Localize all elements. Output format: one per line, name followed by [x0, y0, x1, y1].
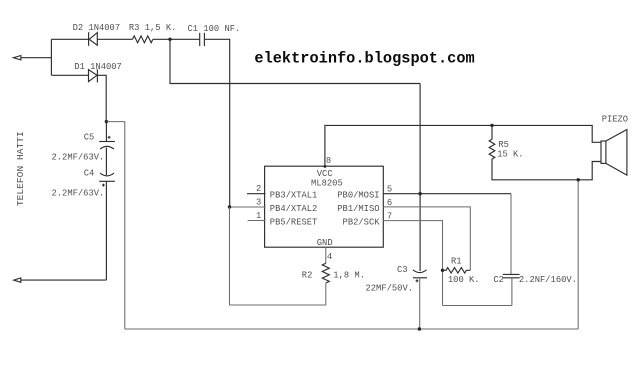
svg-text:elektroinfo.blogspot.com: elektroinfo.blogspot.com	[254, 50, 474, 68]
capacitor C1	[200, 33, 205, 46]
wire	[97, 38, 132, 40]
wire	[419, 84, 421, 272]
capacitor C5	[99, 136, 115, 149]
wire pin 6	[383, 207, 470, 270]
node pin8	[324, 165, 327, 168]
svg-text:22MF/50V.: 22MF/50V.	[366, 284, 414, 294]
wire pin 5	[383, 193, 511, 195]
svg-text:PB5/RESET: PB5/RESET	[270, 217, 318, 227]
svg-text:5: 5	[387, 185, 392, 195]
op-amp chip U1 ML8205 body	[265, 166, 384, 247]
node junction pin7/R1	[441, 269, 444, 272]
diode D1	[89, 69, 98, 82]
svg-text:3: 3	[256, 198, 261, 208]
svg-text:100 K.: 100 K.	[448, 275, 480, 285]
svg-text:2.2MF/63V.: 2.2MF/63V.	[52, 188, 105, 198]
node junction pin3/C1	[228, 205, 231, 208]
node junction pin5/C3	[418, 192, 421, 195]
wire	[51, 74, 88, 76]
svg-text:PB4/XTAL2: PB4/XTAL2	[270, 204, 318, 214]
svg-text:15 K.: 15 K.	[497, 149, 523, 159]
wire	[443, 305, 512, 307]
svg-text:PB3/XTAL1: PB3/XTAL1	[270, 191, 318, 201]
svg-text:1,8 M.: 1,8 M.	[333, 271, 365, 281]
resistor R1	[443, 268, 471, 273]
wire	[491, 125, 493, 139]
svg-text:2.2NF/160V.: 2.2NF/160V.	[519, 275, 577, 285]
svg-text:C1 100 NF.: C1 100 NF.	[188, 24, 241, 34]
wire	[230, 207, 326, 305]
wire ground bus bottom	[125, 328, 578, 330]
wire pin 4	[325, 247, 327, 263]
svg-text:C3: C3	[397, 265, 408, 275]
wire	[97, 75, 106, 121]
wire	[170, 39, 420, 83]
wire	[105, 181, 107, 280]
svg-text:C4: C4	[84, 169, 95, 179]
node junction C3/ground bus	[418, 327, 421, 330]
svg-text:8: 8	[326, 156, 331, 166]
svg-text:C2: C2	[493, 275, 504, 285]
resistor R3	[133, 36, 153, 43]
capacitor C4	[99, 173, 115, 186]
wire	[51, 38, 88, 40]
svg-text:GND: GND	[317, 238, 333, 248]
capacitor C3	[413, 270, 427, 282]
wire	[153, 38, 200, 40]
terminal arrow bottom (telephone line)	[14, 278, 21, 282]
wire	[21, 57, 52, 59]
svg-text:PB0/MOSI: PB0/MOSI	[337, 191, 379, 201]
wire	[105, 148, 107, 175]
wire	[21, 279, 107, 281]
node junction D1/caps	[105, 120, 108, 123]
pin stub 2	[247, 193, 265, 195]
node junction speaker return	[577, 178, 580, 181]
node junction R3/C1	[168, 38, 171, 41]
wire	[577, 180, 579, 329]
wire	[204, 39, 229, 207]
svg-text:ML8205: ML8205	[311, 179, 343, 189]
resistor R2	[322, 263, 329, 283]
svg-text:TELEFON HATTI: TELEFON HATTI	[15, 131, 26, 206]
svg-text:7: 7	[387, 212, 392, 222]
svg-text:4: 4	[327, 252, 332, 262]
svg-text:2.2MF/63V.: 2.2MF/63V.	[52, 153, 105, 163]
svg-text:R3 1,5 K.: R3 1,5 K.	[129, 23, 177, 33]
svg-text:D1 1N4007: D1 1N4007	[74, 62, 122, 72]
wire	[325, 283, 327, 305]
diode D2	[89, 32, 98, 46]
wire	[50, 39, 52, 75]
svg-text:R1: R1	[451, 256, 462, 266]
terminal arrow top (telephone line)	[13, 56, 21, 60]
wire	[106, 122, 124, 329]
wire	[511, 278, 513, 306]
resistor R5	[489, 139, 495, 159]
speaker PIEZO	[601, 130, 627, 176]
svg-text:R2: R2	[302, 271, 313, 281]
node junction VCC/R5	[490, 124, 493, 127]
capacitor C2	[503, 274, 520, 277]
svg-text:C5: C5	[84, 133, 95, 143]
wire pin 3	[230, 206, 266, 208]
pin stub 1	[248, 220, 266, 222]
wire	[105, 122, 107, 142]
wire	[492, 159, 601, 180]
svg-text:PB2/SCK: PB2/SCK	[343, 217, 381, 227]
svg-text:D2 1N4007: D2 1N4007	[73, 23, 121, 33]
wire	[510, 194, 512, 275]
svg-text:PB1/MISO: PB1/MISO	[337, 204, 379, 214]
svg-text:1: 1	[256, 211, 261, 221]
wire pin 7	[383, 221, 442, 306]
svg-text:6: 6	[387, 198, 392, 208]
wire pin 8 VCC	[325, 125, 601, 166]
svg-text:2: 2	[256, 184, 261, 194]
svg-text:PIEZO: PIEZO	[602, 114, 628, 124]
wire	[419, 278, 421, 329]
